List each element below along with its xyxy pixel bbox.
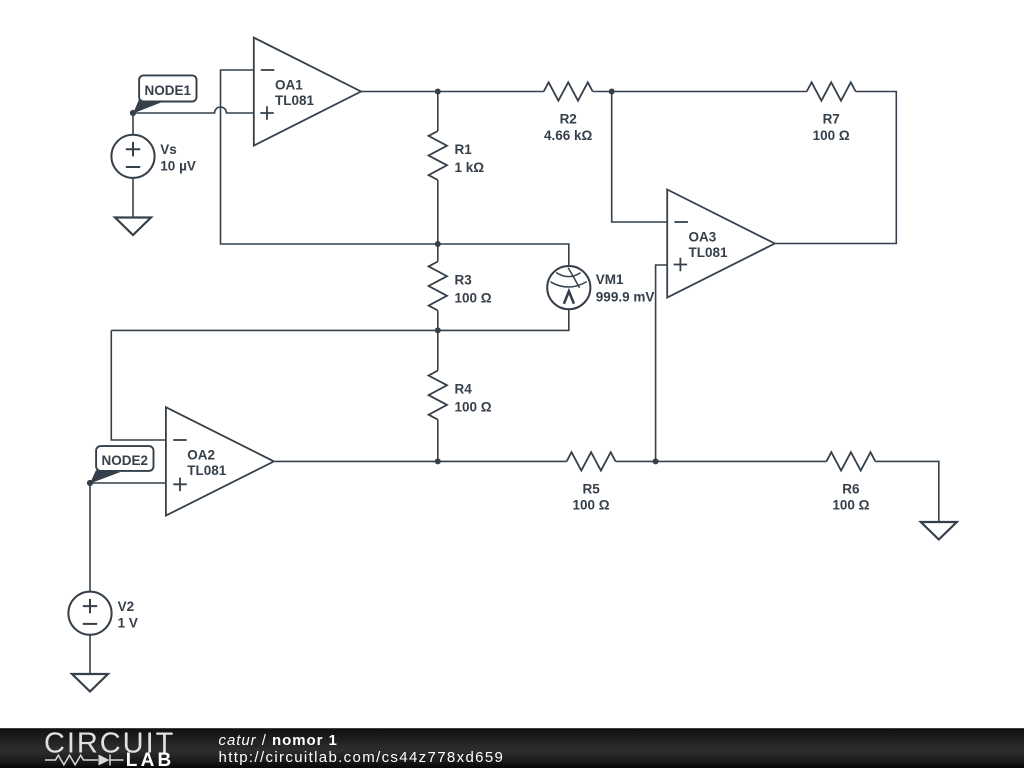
wire net row y=244 to voltmeter top [438, 244, 569, 266]
wire OA3 minus input from junction [612, 92, 668, 223]
voltage source V2 [68, 592, 111, 635]
wire OA2 output to R5 [275, 460, 567, 462]
svg-text:R2: R2 [560, 112, 577, 127]
node junction R1 bottom / net row y=244 [435, 241, 441, 247]
wire OA2 minus feedback up to net row y=330 [111, 330, 166, 440]
resistor R1 [429, 92, 485, 245]
wire OA3 plus input down to R5 junction [656, 265, 668, 461]
node junction R3 bottom / net row y=330 [435, 327, 441, 333]
resistor R2 [544, 82, 593, 143]
svg-text:1 V: 1 V [118, 615, 138, 630]
svg-text:100 Ω: 100 Ω [455, 399, 492, 414]
svg-text:R4: R4 [455, 382, 473, 397]
wire R6 to right ground [875, 461, 938, 522]
wire R5 to R6 [616, 460, 827, 462]
wire R2 to R7 [593, 91, 807, 93]
wire net row y=330 from OA2 loop to voltmeter bottom [111, 309, 569, 330]
svg-text:R6: R6 [842, 481, 860, 496]
svg-text:NODE1: NODE1 [145, 83, 192, 98]
resistor R7 [807, 82, 856, 143]
svg-text:NODE2: NODE2 [102, 453, 149, 468]
svg-text:100 Ω: 100 Ω [832, 498, 869, 513]
svg-text:OA3: OA3 [689, 229, 717, 244]
node junction at OA1 output / R1 top [435, 89, 441, 95]
node junction R4 bottom / OA2 output row [435, 458, 441, 464]
svg-text:OA1: OA1 [275, 77, 303, 92]
ground right (below R6) [921, 522, 957, 540]
label V2 value [118, 599, 138, 630]
svg-text:LAB: LAB [126, 750, 175, 768]
svg-text:1 kΩ: 1 kΩ [455, 160, 485, 175]
svg-text:4.66 kΩ: 4.66 kΩ [544, 128, 593, 143]
svg-text:TL081: TL081 [689, 245, 729, 260]
node label NODE2 [87, 446, 154, 486]
resistor R6 [826, 452, 875, 513]
svg-text:100 Ω: 100 Ω [455, 290, 492, 305]
resistor R5 [567, 452, 616, 513]
voltage source Vs [111, 135, 154, 178]
voltage source V2 leads [89, 483, 91, 592]
node junction R2 / OA3 feedback [609, 89, 615, 95]
svg-text:10 µV: 10 µV [160, 158, 196, 173]
footer bar [0, 728, 1024, 768]
CircuitLab logo wordmark [44, 727, 175, 768]
svg-text:VM1: VM1 [596, 272, 624, 287]
svg-text:http://circuitlab.com/cs44z778: http://circuitlab.com/cs44z778xd659 [219, 749, 505, 766]
node junction OA3 plus / R5 [653, 458, 659, 464]
node label NODE1 [130, 75, 197, 116]
svg-text:TL081: TL081 [275, 93, 315, 108]
svg-text:100 Ω: 100 Ω [573, 498, 610, 513]
svg-text:V2: V2 [118, 599, 135, 614]
svg-text:catur / nomor 1: catur / nomor 1 [219, 732, 338, 749]
voltage source Vs leads [132, 113, 134, 135]
label Vs value [160, 142, 196, 173]
wire OA1 output to R2 [361, 91, 544, 93]
voltmeter VM1 [547, 266, 654, 309]
wire R7 right, down and left to OA3 output [775, 92, 897, 244]
svg-text:TL081: TL081 [187, 463, 227, 478]
op-amp OA3 TL081 [667, 190, 775, 298]
svg-text:100 Ω: 100 Ω [813, 128, 850, 143]
resistor R3 [429, 244, 492, 330]
resistor R4 [429, 330, 492, 461]
ground below V2 [72, 674, 108, 692]
svg-text:Vs: Vs [160, 142, 177, 157]
svg-text:R5: R5 [582, 481, 600, 496]
svg-text:R3: R3 [455, 273, 473, 288]
logo resistor-diode squiggle [45, 755, 124, 766]
ground below Vs [115, 218, 151, 236]
svg-text:OA2: OA2 [187, 447, 215, 462]
wire NODE1 to OA1 plus input (with hop over vertical wire) [133, 107, 254, 113]
svg-text:R1: R1 [455, 142, 473, 157]
op-amp OA2 TL081 [166, 407, 274, 515]
svg-text:R7: R7 [823, 112, 840, 127]
wire OA1 minus feedback: left and down to net row y=244 [221, 70, 438, 244]
svg-text:999.9 mV: 999.9 mV [596, 289, 655, 304]
wire NODE2 to OA2 plus input [90, 482, 166, 484]
op-amp OA1 TL081 [254, 38, 361, 146]
